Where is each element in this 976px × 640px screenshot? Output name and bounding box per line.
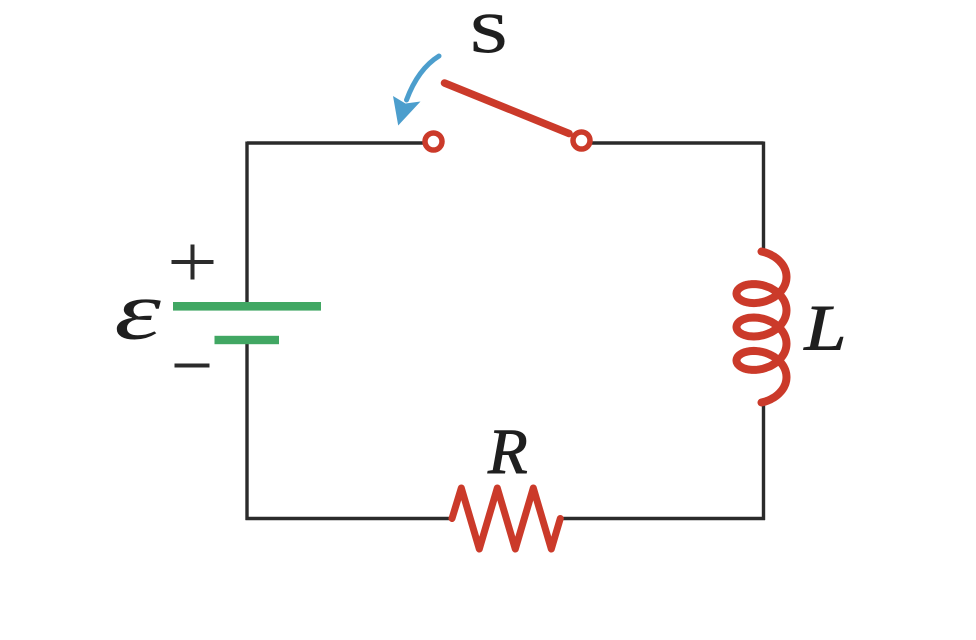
battery negative plate <box>215 336 280 344</box>
svg-text:R: R <box>487 416 528 488</box>
wire top-left segment <box>247 141 425 144</box>
wire top-right segment <box>591 141 764 144</box>
plus sign <box>172 245 214 280</box>
blue arrowhead <box>393 96 421 126</box>
wire left upper <box>245 142 248 307</box>
svg-text:ε: ε <box>114 265 161 357</box>
wire right lower <box>762 403 765 521</box>
resistor R zigzag <box>452 488 560 549</box>
wire right upper <box>762 142 765 252</box>
svg-text:L: L <box>803 292 846 364</box>
blue closing arrow <box>407 56 440 100</box>
inductor coil L <box>737 252 787 403</box>
wire bottom-left segment <box>246 517 453 520</box>
wire left lower <box>245 341 248 521</box>
svg-text:S: S <box>469 3 508 65</box>
switch left contact <box>425 133 442 150</box>
wire bottom-right segment <box>560 517 765 520</box>
switch arm <box>445 83 570 134</box>
battery positive plate <box>173 302 321 311</box>
switch right contact <box>573 132 590 149</box>
minus sign <box>175 364 210 368</box>
